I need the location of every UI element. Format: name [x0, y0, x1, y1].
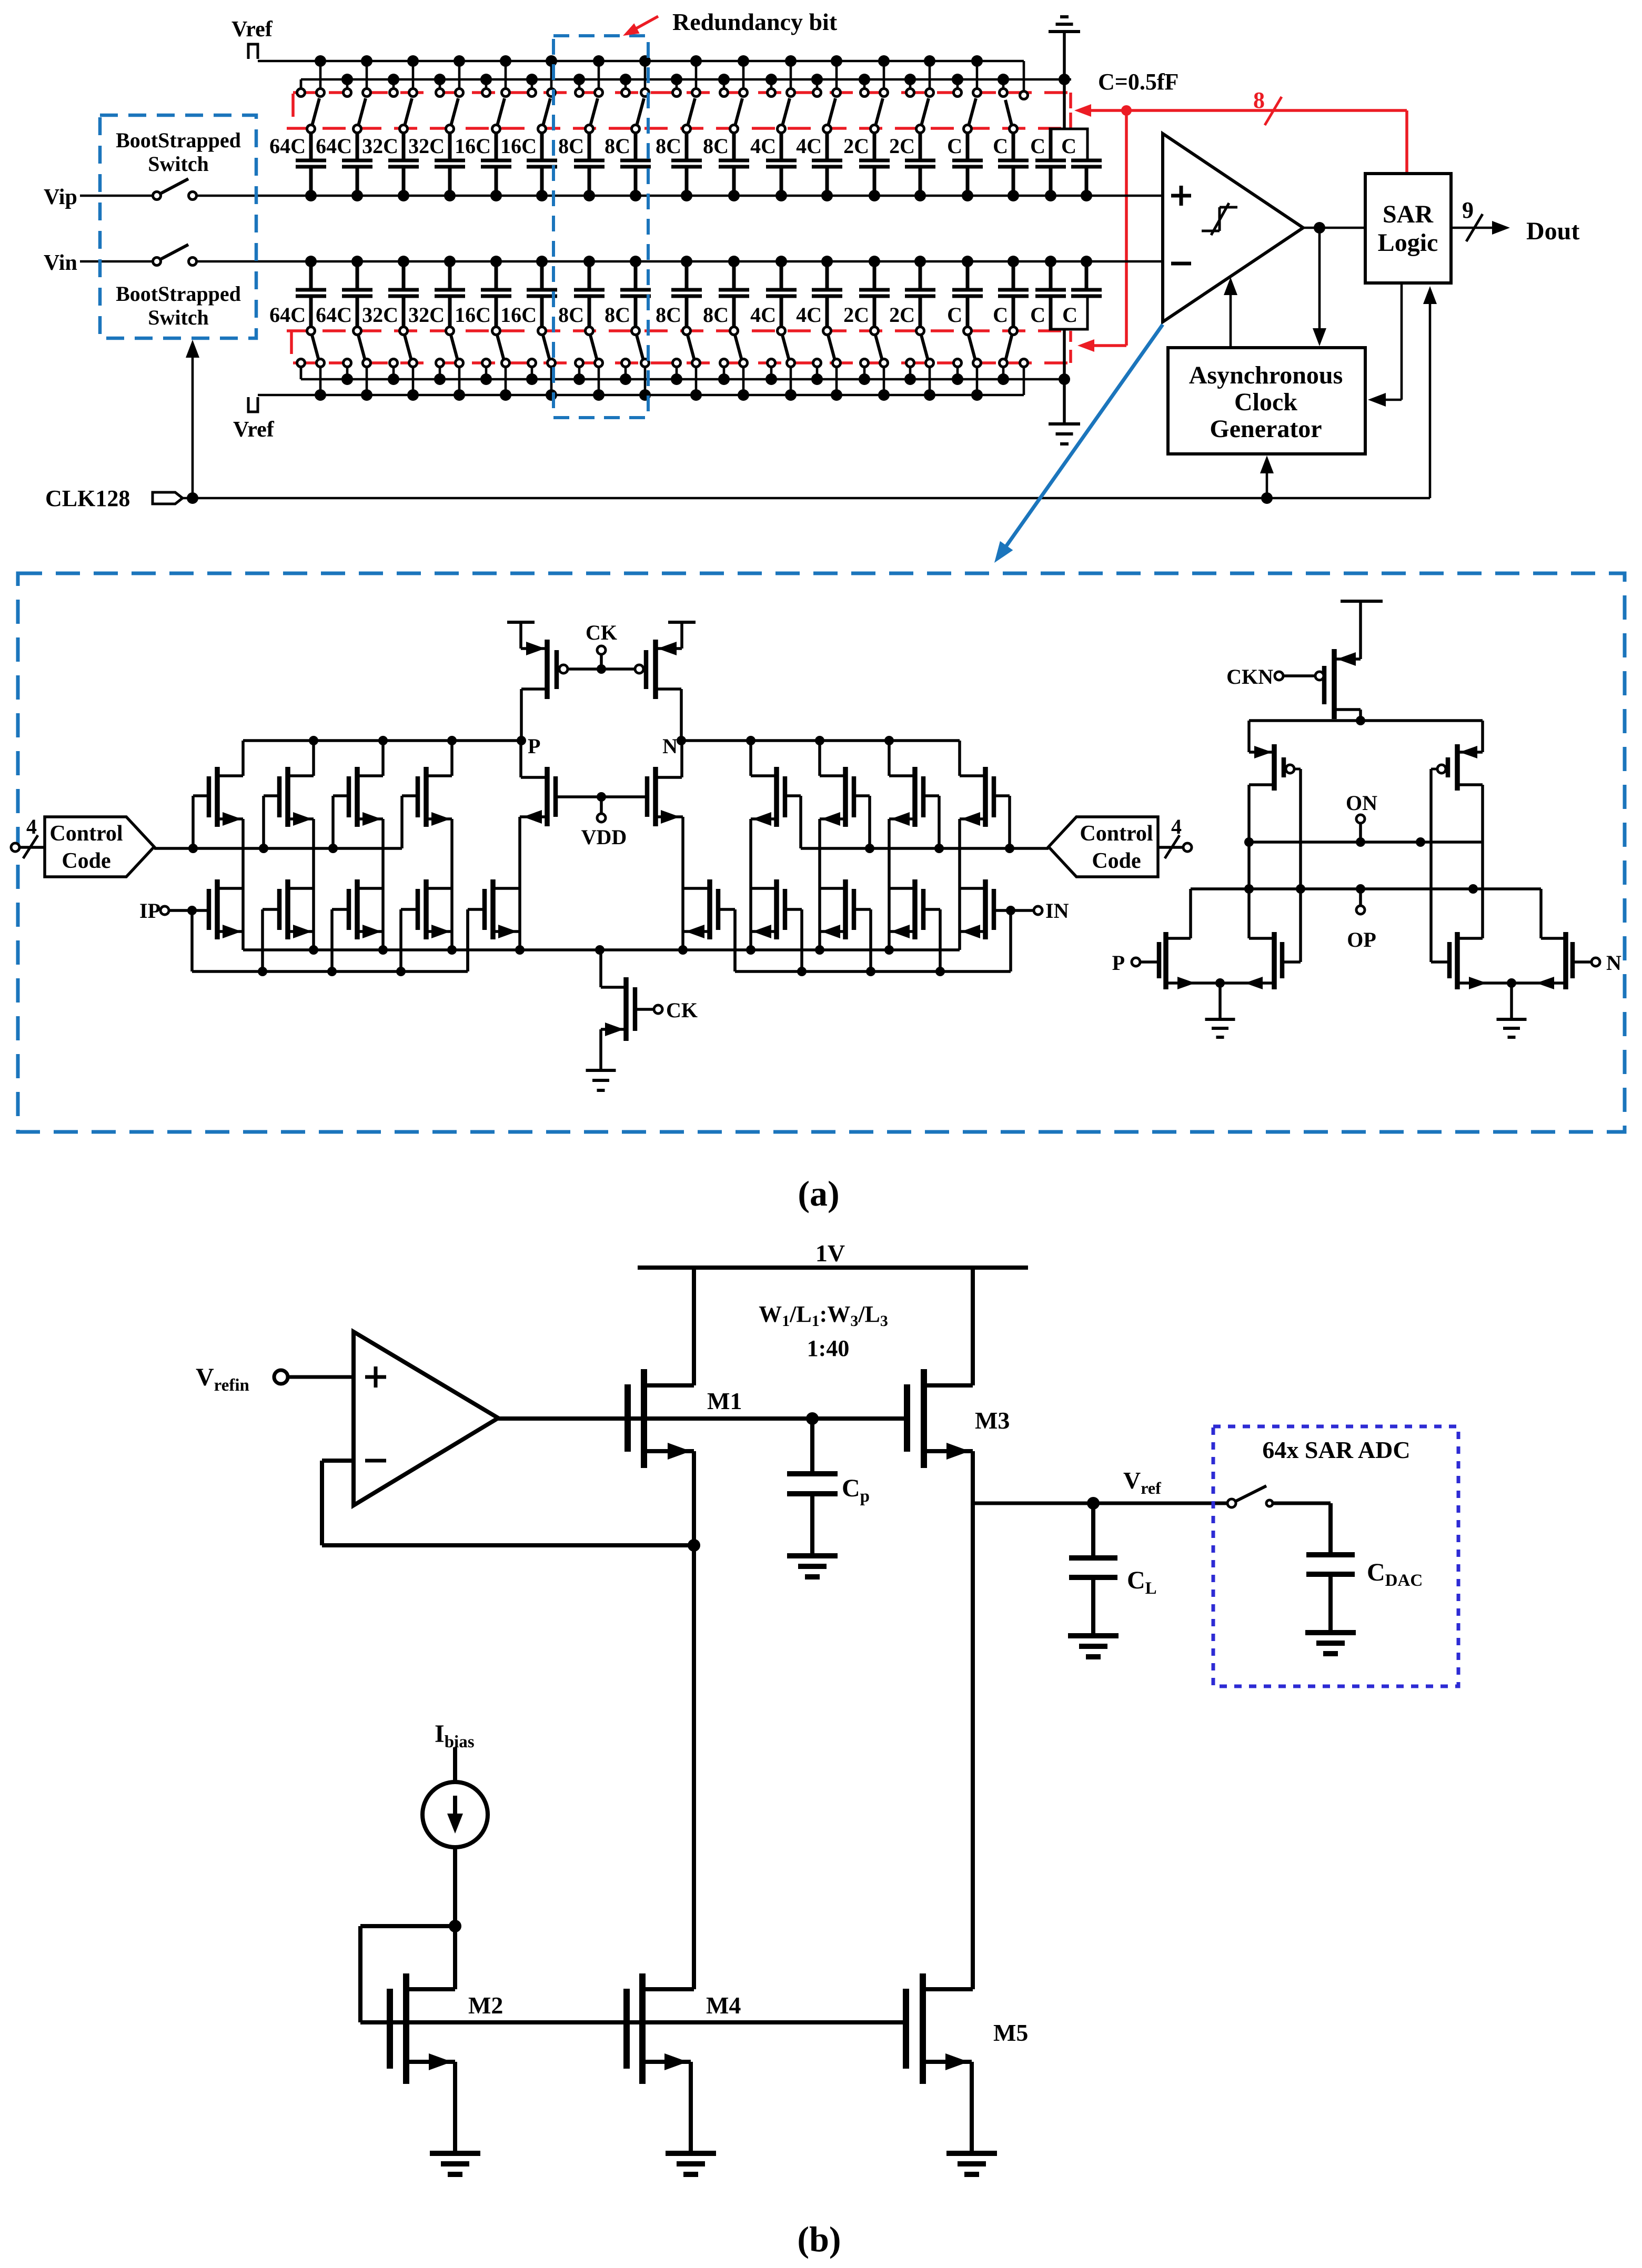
transistor top-row right T4R — [751, 767, 785, 827]
capacitor 64C top-bank col2 — [316, 134, 372, 196]
node rail dots column 3 — [388, 55, 419, 85]
capacitor 16C top-bank col6 — [500, 134, 557, 196]
svg-text:CKN: CKN — [1226, 665, 1273, 688]
transistor latch NMOS outer right — [1512, 889, 1573, 989]
capacitor 4C bottom-bank col11 — [750, 261, 797, 327]
svg-text:1:40: 1:40 — [807, 1335, 850, 1361]
node N — [662, 734, 686, 758]
transistor M3 — [907, 1369, 1010, 1468]
switch S4t top-bank column 32C — [436, 61, 464, 133]
switch S13t top-bank column 2C — [861, 61, 888, 133]
wire gate hook bottom B2R — [924, 909, 940, 971]
Vref terminal bottom — [233, 397, 275, 442]
wire latch distribution — [1249, 721, 1483, 752]
1V supply rail — [638, 1240, 1028, 1268]
capacitor 32C bottom-bank col3 — [362, 261, 419, 327]
switch S5b bottom-bank column 16C — [482, 327, 510, 396]
node CLK junction left — [187, 492, 198, 504]
wire gate hook bottom B4 — [401, 909, 417, 971]
svg-text:8C: 8C — [605, 134, 630, 158]
gate wire CK pair — [559, 646, 643, 674]
cap lead bottom col6 — [540, 296, 544, 327]
supply stub latch — [1341, 601, 1383, 659]
svg-text:Vref: Vref — [233, 418, 275, 442]
wire ON bus — [1244, 837, 1483, 847]
wire M1 drain to 1V — [692, 1268, 696, 1385]
cap lead top col1 — [309, 133, 313, 160]
switch S1t top-bank column 64C — [297, 61, 325, 133]
switch S15t top-bank column C — [954, 61, 981, 133]
svg-text:BootStrapped: BootStrapped — [116, 128, 241, 152]
capacitor CDAC — [1306, 1555, 1423, 1633]
node rail dots column 15 — [952, 55, 983, 85]
IN input — [994, 899, 1069, 923]
svg-text:32C: 32C — [362, 134, 398, 158]
switch S6t top-bank column 16C — [528, 61, 556, 133]
node Vin-rail junction boxed C — [1081, 256, 1092, 267]
node rail dots column 16 — [998, 74, 1009, 85]
wire drain to N-rail T3R — [815, 736, 824, 776]
svg-text:C: C — [947, 134, 962, 158]
wire Vref bottom rail4 — [258, 394, 1024, 397]
node rail dots column 12 — [811, 55, 842, 85]
node Vip-rail junction col11 — [775, 190, 787, 201]
node CLK junction async — [1261, 492, 1273, 504]
node rail dots column 11 — [765, 55, 797, 85]
node feedback junction — [688, 1539, 700, 1552]
cap lead bottom col3 — [402, 296, 406, 327]
wire CLK to async clock generator — [1260, 455, 1274, 498]
svg-text:Asynchronous: Asynchronous — [1189, 361, 1343, 389]
svg-text:8C: 8C — [558, 134, 584, 158]
cap lead top col13 — [873, 133, 877, 160]
ground CL — [1068, 1636, 1119, 1657]
nodes on common source bus — [309, 945, 894, 955]
wire control bus left — [154, 844, 402, 853]
red dashed net top bank lower — [287, 93, 1071, 128]
node Vip-rail junction boxed C — [1081, 190, 1092, 201]
node Vip-rail junction col17 — [1045, 190, 1056, 201]
wire M4 source to ground — [689, 2062, 693, 2153]
svg-text:8C: 8C — [605, 303, 630, 327]
node IP junction — [187, 906, 197, 915]
wire IP gate bus left — [192, 909, 468, 976]
svg-text:C: C — [1030, 303, 1045, 327]
control code lead left — [11, 815, 45, 858]
svg-text:64C: 64C — [316, 303, 352, 327]
capacitor 8C top-bank col9 — [656, 134, 702, 196]
cap lead top col10 — [732, 133, 736, 160]
label M4 — [706, 1992, 741, 2019]
wire P rail — [243, 739, 521, 742]
node bottom rail dots column 12 — [811, 373, 842, 401]
cap lead bottom col17 — [1049, 296, 1053, 329]
ground M4 — [666, 2153, 716, 2174]
switch S12b bottom-bank column 4C — [813, 327, 841, 396]
wire latch drain column left — [1247, 785, 1251, 938]
transistor PMOS reset left — [521, 640, 557, 741]
svg-text:Dout: Dout — [1526, 217, 1579, 245]
cap lead top col2 — [356, 133, 359, 160]
node Vip-rail junction col12 — [821, 190, 833, 201]
svg-text:9: 9 — [1462, 197, 1474, 223]
node Vip-rail junction col15 — [962, 190, 973, 201]
cap lead bottom col11 — [780, 296, 783, 327]
transistor M5 — [906, 1973, 973, 2084]
CKN input — [1226, 665, 1315, 688]
switch S10b bottom-bank column 8C — [720, 327, 748, 396]
transistor top-row right T1R — [960, 767, 994, 827]
node bottom rail dots column 6 — [526, 373, 557, 401]
wire op-amp output to gates — [498, 1416, 907, 1421]
node Vin-rail junction col7 — [583, 256, 595, 267]
blue annotation arrow to detail — [994, 325, 1163, 563]
transistor bottom-row right B4R — [751, 879, 785, 939]
capacitor 8C bottom-bank col7 — [558, 261, 605, 327]
capacitor 2C top-bank col14 — [889, 134, 935, 196]
cap lead bottom col7 — [588, 296, 591, 327]
svg-text:W1/L1:W3/L3: W1/L1:W3/L3 — [759, 1301, 888, 1330]
svg-text:C: C — [1062, 303, 1077, 327]
svg-text:32C: 32C — [408, 134, 445, 158]
wire latch drain column right — [1481, 785, 1484, 938]
cap lead bottom col4 — [448, 296, 452, 327]
svg-text:4C: 4C — [750, 303, 776, 327]
wire rail1 right drop — [1023, 61, 1025, 92]
svg-text:M1: M1 — [707, 1388, 742, 1414]
svg-text:C: C — [993, 134, 1008, 158]
capacitor 2C bottom-bank col14 — [889, 261, 935, 327]
switch S12t top-bank column 4C — [813, 61, 841, 133]
wire M3 drain to 1V — [971, 1268, 975, 1385]
node rail dots column 5 — [480, 55, 511, 85]
node Vin-rail junction col17 — [1045, 256, 1056, 267]
wire gate hook bottom B4R — [785, 909, 802, 971]
svg-text:4C: 4C — [796, 303, 822, 327]
transistor PMOS inner left — [520, 741, 556, 950]
wire Vip input — [80, 195, 1163, 197]
red wire down to bottom bank — [1077, 110, 1126, 352]
svg-text:Clock: Clock — [1234, 388, 1297, 416]
control code lead right — [1158, 815, 1192, 858]
capacitor 8C top-bank col7 — [558, 134, 605, 196]
switch SAR sampling — [1227, 1486, 1331, 1555]
cap lead bottom col15 — [966, 296, 970, 327]
red dashed net top bank upper — [293, 93, 1071, 128]
svg-text:Control: Control — [49, 822, 123, 846]
svg-text:C=0.5fF: C=0.5fF — [1098, 69, 1178, 95]
switch S14b bottom-bank column 2C — [906, 327, 934, 396]
svg-text:64C: 64C — [269, 303, 306, 327]
wire M1 source to M4 — [692, 1451, 696, 1989]
switch S9t top-bank column 8C — [673, 61, 700, 133]
node Vin-rail junction col11 — [775, 256, 787, 267]
node IN junction — [1006, 906, 1015, 915]
wire diode connection M2 — [360, 1926, 455, 2022]
svg-text:8C: 8C — [703, 303, 729, 327]
SAR Logic box U2 — [1365, 174, 1451, 283]
node rail dots column 10 — [718, 55, 749, 85]
control code box right — [1049, 817, 1158, 877]
svg-text:C: C — [1030, 134, 1045, 158]
svg-text:(b): (b) — [797, 2219, 841, 2259]
wire M2 source to ground — [453, 2062, 457, 2153]
node Vip-rail junction col13 — [869, 190, 880, 201]
ON tap — [1346, 791, 1377, 842]
cap lead top col5 — [495, 133, 498, 160]
svg-text:OP: OP — [1347, 928, 1376, 951]
node Vref CL junction — [1087, 1497, 1100, 1510]
switch S6b bottom-bank column 16C — [528, 327, 556, 396]
node bottom rail dots column 4 — [434, 373, 465, 401]
transistor PMOS reset right — [646, 640, 682, 741]
cap lead bottom col5 — [495, 296, 498, 327]
wire drain to P-rail T4 — [447, 736, 457, 776]
wire N rail — [681, 739, 960, 742]
label M5 — [993, 2019, 1028, 2046]
wire gate bus M2 M4 M5 — [360, 2020, 906, 2024]
capacitor C top-bank col17 — [1030, 134, 1066, 196]
cap lead bottom col1 — [309, 296, 313, 327]
node bottom rail dots column 10 — [718, 373, 749, 401]
wire gate hook top T2 — [264, 796, 279, 848]
node latch supply — [1356, 716, 1365, 725]
node Vin-rail junction col4 — [444, 256, 456, 267]
wire comparator to async generator — [1313, 228, 1326, 346]
svg-text:2C: 2C — [889, 134, 915, 158]
node bottom rail dots column 8 — [620, 373, 651, 401]
capacitor 16C bottom-bank col6 — [500, 261, 557, 327]
cap lead top col8 — [634, 133, 638, 160]
bootstrapped switch Vip — [153, 179, 197, 200]
node rail dots column 8 — [620, 55, 651, 85]
transistor latch NMOS inner right — [1431, 932, 1512, 989]
wire drain to P-rail T3 — [378, 736, 388, 776]
svg-text:32C: 32C — [362, 303, 398, 327]
cap lead top col15 — [966, 133, 970, 160]
capacitor 64C bottom-bank col2 — [316, 261, 372, 327]
node rail dots column 7 — [573, 55, 605, 85]
transistor top-row left T4 — [418, 767, 452, 827]
switch S7t top-bank column 8C — [576, 61, 603, 133]
svg-text:Generator: Generator — [1210, 415, 1322, 443]
ground M5 — [946, 2153, 997, 2174]
node bottom rail dots column 3 — [388, 373, 419, 401]
node latch source junction right — [1507, 978, 1516, 1019]
transistor top-row left T2 — [279, 767, 314, 827]
label CLK128 — [45, 485, 130, 511]
node latch source junction left — [1215, 978, 1225, 1019]
svg-text:P: P — [528, 734, 540, 758]
capacitor 64C bottom-bank col1 — [269, 261, 326, 327]
node Vin-rail junction col15 — [962, 256, 973, 267]
capacitor 32C bottom-bank col4 — [408, 261, 465, 327]
transistor bottom-row right B5R — [684, 879, 718, 939]
wire drain to N-rail T1R — [958, 741, 961, 776]
svg-text:Code: Code — [1092, 849, 1141, 873]
node rail dots column 4 — [434, 55, 465, 85]
label (b) — [797, 2219, 841, 2259]
switch S16b bottom-bank column C — [1000, 327, 1018, 380]
capacitor 32C top-bank col3 — [362, 134, 419, 196]
switch S2b bottom-bank column 64C — [344, 327, 371, 396]
capacitor 32C top-bank col4 — [408, 134, 465, 196]
node Vin-rail junction col2 — [351, 256, 363, 267]
transistor top-row right T3R — [820, 767, 854, 827]
transistor bottom-row right B2R — [889, 879, 923, 939]
label Vref part-b — [1123, 1467, 1161, 1497]
svg-text:CK: CK — [666, 998, 698, 1022]
wire CLK128 — [183, 497, 1430, 500]
switch S8b bottom-bank column 8C — [622, 327, 649, 396]
transistor latch NMOS inner left — [1220, 932, 1301, 989]
cap lead top col12 — [825, 133, 829, 160]
cap lead top col6 — [540, 133, 544, 160]
VDD node — [556, 792, 647, 822]
wire rail4 right rise — [1023, 367, 1025, 395]
wire source column T1R — [958, 819, 961, 950]
switch S11b bottom-bank column 4C — [768, 327, 795, 396]
transistor top-row left T3 — [349, 767, 383, 827]
transistor latch NMOS outer left — [1159, 889, 1220, 989]
wire source column T4 — [450, 819, 454, 950]
node bottom rail dots column 9 — [671, 373, 702, 401]
wire SAR to async feedback — [1368, 283, 1402, 407]
svg-text:C: C — [947, 303, 962, 327]
red annotation arrow — [623, 16, 658, 36]
node bottom rail dots column 7 — [573, 373, 605, 401]
node Vip-rail junction col4 — [444, 190, 456, 201]
transistor M1 — [628, 1369, 742, 1468]
wire drain to N-rail T2R — [884, 736, 894, 776]
wire control bus right — [801, 844, 1049, 853]
ground CDAC — [1305, 1633, 1356, 1654]
capacitor C boxed bottom-bank (redundant unit cap) — [1050, 261, 1102, 329]
wire Ibias to M2 — [453, 1847, 457, 1989]
node Vin-rail junction col13 — [869, 256, 880, 267]
N input latch — [1573, 951, 1621, 975]
wire gate hook top T4R — [785, 796, 801, 848]
node bottom rail dots column 1 — [315, 389, 326, 401]
svg-text:8C: 8C — [558, 303, 584, 327]
wire Vref top rail — [258, 60, 1024, 63]
node Vip-rail junction col7 — [583, 190, 595, 201]
transistor PMOS CKN — [1315, 649, 1361, 721]
capacitor C bottom-bank col15 — [947, 261, 983, 327]
svg-text:CK: CK — [586, 621, 617, 644]
capacitor 2C bottom-bank col13 — [843, 261, 890, 327]
svg-text:CLK128: CLK128 — [45, 485, 130, 511]
node bottom rail dots column 13 — [859, 373, 890, 401]
wire gate hook bottom B5R — [719, 909, 735, 971]
capacitor C bottom-bank col17 — [1030, 261, 1066, 327]
ground latch left — [1205, 1019, 1235, 1037]
capacitor C boxed top-bank (redundant unit cap) — [1050, 129, 1102, 196]
switch S14t top-bank column 2C — [906, 61, 934, 133]
node Vip-rail junction col10 — [728, 190, 740, 201]
node Vin-rail junction col16 — [1008, 256, 1019, 267]
wire common source bus — [243, 948, 960, 951]
switch S11t top-bank column 4C — [768, 61, 795, 133]
capacitor 4C top-bank col12 — [796, 134, 842, 196]
wire OP bus — [1191, 884, 1541, 894]
Vrefin input — [196, 1363, 354, 1395]
wire gate hook top T2R — [923, 796, 939, 848]
cap lead top col4 — [448, 133, 452, 160]
cap lead top col7 — [588, 133, 591, 160]
supply stub left of CK pair — [507, 622, 535, 649]
svg-text:SAR: SAR — [1383, 200, 1434, 228]
svg-text:16C: 16C — [455, 303, 491, 327]
svg-text:Vref: Vref — [231, 17, 273, 42]
capacitor 4C top-bank col11 — [750, 134, 797, 196]
CLK128 terminal — [153, 492, 183, 504]
svg-text:2C: 2C — [889, 303, 915, 327]
cap lead top col17 — [1049, 129, 1053, 160]
node Vip-rail junction col16 — [1008, 190, 1019, 201]
wire gate hook bottom B3R — [854, 909, 871, 971]
node rail dots column 14 — [904, 55, 935, 85]
svg-text:64C: 64C — [269, 134, 306, 158]
bootstrapped switch box — [100, 115, 256, 338]
node bottom rail dots column 11 — [765, 373, 797, 401]
switch S3t top-bank column 32C — [390, 61, 417, 133]
asynchronous clock generator box U3 — [1168, 348, 1365, 454]
node Vip-rail junction col5 — [490, 190, 502, 201]
switch S7b bottom-bank column 8C — [576, 327, 603, 396]
svg-text:M3: M3 — [975, 1407, 1010, 1434]
node gate M1 M3 / Cp — [806, 1412, 819, 1425]
wire source column T3 — [381, 819, 385, 950]
gate CK tail — [635, 998, 698, 1022]
transistor bottom-row left B3 — [349, 879, 383, 939]
svg-text:Code: Code — [62, 849, 110, 873]
svg-text:2C: 2C — [843, 134, 869, 158]
wire Vin input — [80, 260, 1163, 263]
wire latch gate column right — [1429, 769, 1433, 962]
op-amp buffer A1 — [354, 1332, 498, 1505]
transistor bottom-row right B3R — [820, 879, 854, 939]
node Vin-rail junction col9 — [681, 256, 692, 267]
wire gate hook top T1R — [994, 796, 1010, 848]
transistor bottom-row left B1 — [209, 879, 243, 939]
svg-text:4: 4 — [26, 815, 37, 838]
switch S3b bottom-bank column 32C — [390, 327, 417, 396]
node Vin-rail junction col5 — [490, 256, 502, 267]
cap lead bottom col8 — [634, 296, 638, 327]
svg-text:2C: 2C — [843, 303, 869, 327]
label Dout — [1526, 217, 1579, 245]
capacitor 8C bottom-bank col10 — [703, 261, 749, 327]
capacitor 8C top-bank col10 — [703, 134, 749, 196]
switch S4b bottom-bank column 32C — [436, 327, 464, 396]
wire drain to P-rail T2 — [309, 736, 318, 776]
wire CLK to SAR logic — [1423, 286, 1437, 498]
node Vip-rail junction col2 — [351, 190, 363, 201]
svg-text:M4: M4 — [706, 1992, 741, 2019]
svg-text:ON: ON — [1346, 791, 1377, 815]
label M2 — [468, 1992, 503, 2019]
wire gate hook top T1 — [193, 796, 209, 848]
transistor top-row left T1 — [209, 767, 243, 827]
transistor tail NMOS CK — [601, 950, 635, 1070]
switch S5t top-bank column 16C — [482, 61, 510, 133]
svg-text:4C: 4C — [750, 134, 776, 158]
red wire to SAR Logic — [1405, 110, 1408, 174]
wire comparator output — [1303, 227, 1365, 229]
ground top-right — [1049, 17, 1080, 129]
label VDD — [581, 825, 627, 849]
